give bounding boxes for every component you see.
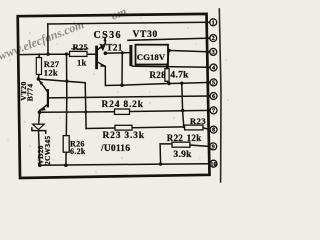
- wire: R22 3.9k riser from ground rail: [160, 144, 172, 164]
- svg-text:2: 2: [212, 35, 215, 42]
- transistor VT21 base bar: [95, 47, 98, 68]
- svg-text:R22: R22: [167, 133, 184, 143]
- junction dot collector node to CG18V: [104, 51, 108, 55]
- node B junction dot: [65, 52, 68, 55]
- svg-text:4: 4: [212, 65, 215, 72]
- VT20 emitter arrow: [39, 80, 43, 85]
- svg-text:10: 10: [210, 161, 216, 168]
- resistor R26 6.2k (vertical box): [63, 136, 69, 153]
- VT21 collector diagonal: [98, 44, 106, 50]
- svg-text:/U0116: /U0116: [100, 144, 130, 154]
- transistor VT20 (B774) base bar: [47, 90, 49, 106]
- wire: R28 vertical from output node down: [167, 51, 169, 69]
- junction dot V2 tee: [84, 111, 87, 114]
- junction dot V3 top: [121, 51, 124, 54]
- zener diode VD20 2CW345: [33, 124, 45, 130]
- VT21 collector vertical to node1 rail: [104, 38, 106, 44]
- junction dot right-vertical top on rail: [180, 82, 183, 85]
- wire: VT20 emitter line going right, corner down (V2) to 3.3k line: [38, 79, 86, 129]
- svg-text:3.9k: 3.9k: [173, 150, 192, 160]
- scan page edge line right: [219, 9, 221, 182]
- pin circles 1-10: [210, 19, 217, 167]
- svg-text:CG18V: CG18V: [137, 52, 166, 62]
- junction dot at CG18V output corner: [167, 49, 171, 53]
- svg-text:R28: R28: [150, 70, 167, 80]
- VT20 emitter diagonal: [38, 79, 47, 92]
- VT21 emitter diagonal: [98, 62, 106, 66]
- svg-text:4.7k: 4.7k: [170, 70, 189, 80]
- wire: R24 line from VT20 collector node to pin 7: [40, 110, 210, 112]
- wire: node 1 rail from corner to pin 1: [48, 22, 210, 24]
- junction dot right vertical at pin7 line: [181, 109, 185, 113]
- resistor R22 3.9k (box): [172, 142, 190, 147]
- wire: CG18V bottom bar bend to pin 4: [131, 65, 210, 68]
- wire: R22 to pin 9: [190, 145, 210, 146]
- resistor R28 4.7k (vertical box): [165, 69, 169, 82]
- junction dot collector-top: [103, 37, 106, 41]
- svg-text:om: om: [109, 4, 128, 23]
- svg-text:1: 1: [212, 19, 215, 26]
- scan speckle: [7, 17, 228, 172]
- junction dot V3 bottom on rail: [120, 83, 124, 87]
- pin stubs: [207, 21, 210, 23]
- VT20 base wire to pin 6: [49, 96, 210, 98]
- VT21 collector arrow: [100, 45, 105, 49]
- junction dot R28 bottom on rail: [167, 82, 170, 85]
- wire: corner vertical down to top rail: [47, 24, 49, 54]
- VT21 emitter arrow: [100, 63, 105, 66]
- junction blob on pin4 wire at R28 vertical: [166, 65, 169, 68]
- resistor R23 3.3k (box): [115, 125, 132, 130]
- node A junction dot: [46, 53, 49, 56]
- resistor R23 12k (box): [185, 125, 203, 130]
- resistor R25 1k (box on top rail): [70, 51, 88, 56]
- junction dot R26-rail: [64, 163, 68, 167]
- svg-text:CS36: CS36: [94, 30, 122, 41]
- wire: R23 3.3k line (from V2 corner, through resistor, to R23 vertical): [86, 127, 182, 129]
- svg-text:2CW345: 2CW345: [43, 136, 52, 165]
- svg-text:3: 3: [212, 49, 215, 56]
- wire: vertical from pin7 node down to R23: [183, 111, 185, 128]
- wire: collector node to CG18V input bar: [105, 52, 129, 55]
- svg-text:7: 7: [212, 108, 215, 115]
- wire: V1 long vertical from top rail down to R26: [65, 54, 68, 136]
- svg-text:R23: R23: [190, 116, 206, 126]
- VT21 emitter vertical down to rail: [105, 66, 122, 85]
- svg-text:R25: R25: [73, 42, 89, 52]
- wire: CG18V output to pin 3: [168, 50, 210, 52]
- svg-text:8: 8: [212, 127, 215, 134]
- resistor R27 12k (vertical box): [38, 54, 40, 57]
- svg-text:5: 5: [212, 80, 215, 87]
- wire: top rail (base feed) from left border to VT21 base: [19, 53, 97, 55]
- wire: VT30 line to pin 2: [128, 38, 210, 40]
- wire: right vertical from rail down to pin7 line: [181, 83, 184, 110]
- wire: R23 to pin 8: [203, 128, 210, 130]
- svg-text:6.2k: 6.2k: [70, 147, 86, 156]
- svg-text:6: 6: [212, 93, 215, 100]
- svg-text:1k: 1k: [77, 57, 87, 67]
- VT20 collector diagonal: [40, 104, 48, 110]
- junction dot start of R24 line: [38, 110, 42, 114]
- junction dot VT20 emitter node: [37, 77, 41, 81]
- svg-text:B774: B774: [25, 84, 34, 102]
- emitter rail to pin 5: [122, 82, 210, 85]
- regulator CG18V input bar: [129, 46, 132, 64]
- svg-text:12k: 12k: [44, 68, 58, 78]
- svg-text:R24 8.2k: R24 8.2k: [102, 100, 144, 110]
- resistor R24 8.2k (box): [115, 109, 130, 114]
- svg-text:R23 3.3k: R23 3.3k: [103, 131, 145, 141]
- ground rail to pin 10: [40, 164, 210, 166]
- svg-text:VT30: VT30: [133, 30, 159, 40]
- wire: VT20 collector down to zener: [39, 111, 40, 125]
- VT20 collector arrow: [40, 107, 46, 111]
- svg-text:VT21: VT21: [100, 43, 123, 53]
- junction dot riser on rail: [159, 162, 162, 165]
- watermark: [0, 4, 128, 63]
- border frame: [18, 14, 210, 178]
- junction dot V1 on emitter line: [65, 80, 68, 83]
- wire: V3 vertical down to rail: [121, 53, 123, 85]
- regulator CG18V box: [136, 45, 169, 65]
- junction dot zener-rail: [38, 164, 42, 168]
- svg-text:9: 9: [212, 144, 215, 151]
- svg-text:12k: 12k: [187, 133, 202, 143]
